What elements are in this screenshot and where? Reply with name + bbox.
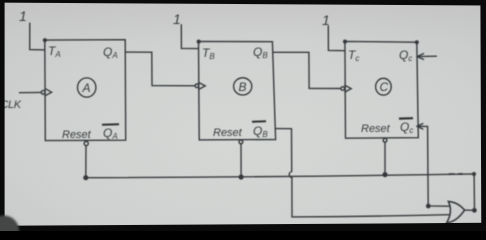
svg-text:1: 1 [173,11,181,27]
svg-text:Reset: Reset [62,129,92,141]
corner blob bottom-left [0,216,19,240]
clock wedge C [345,85,351,92]
wire CLK input [20,91,42,93]
clock bubble C [341,87,345,91]
reset bubble A [84,141,88,145]
corner dot A [44,39,47,42]
corner dot bus right [473,173,476,176]
arrowhead QC [417,54,424,60]
corner dot C [344,40,347,43]
reset bubble B [239,140,243,144]
wire gate output [465,209,475,211]
corner dot C right [416,41,419,44]
flip-flop B box [199,41,276,139]
svg-text:1: 1 [19,8,27,24]
svg-text:1: 1 [322,12,330,28]
circled letter B [234,78,252,95]
wire QA to clock B [126,52,196,86]
circled letter C [376,78,392,95]
wire 1 to TA [30,23,45,50]
svg-text:Reset: Reset [361,123,391,135]
border frame left [0,0,5,231]
wire 1 to TC [328,26,345,51]
OR gate [447,201,465,223]
svg-text:B: B [239,80,247,94]
flip-flop C box [345,41,418,138]
arrowhead QCbar [417,124,423,129]
wire reset bus [86,174,475,210]
clock bubble B [195,84,199,88]
wire QBbar down with hop [276,129,450,217]
svg-text:C: C [380,80,389,94]
clock wedge B [199,83,205,90]
clock wedge A [45,89,51,96]
reset bubble C [383,138,387,142]
junction dot gate output [473,209,476,212]
junction dot reset C [383,173,387,177]
svg-text:A: A [82,81,91,95]
svg-text:Reset: Reset [213,127,243,139]
junction dot reset A [84,176,88,180]
border frame top [0,0,486,6]
border frame right [480,0,486,231]
flip-flop A box [45,40,126,141]
wire QB to clock C [273,52,341,88]
circled letter A [78,78,96,97]
junction dot reset B [239,175,243,179]
bus mark dashes [449,173,462,175]
wire QC output stub [417,55,436,57]
junction dot QCbar corner [427,204,430,207]
wire reset pin B [240,144,242,177]
wire 1 to TB [181,25,198,49]
border frame bottom [0,223,486,231]
wire reset pin A [85,146,87,178]
corner dot B [197,40,200,43]
clock bubble A [41,90,45,94]
wire reset pin C [384,142,386,174]
wire QCbar to gate [417,126,449,206]
